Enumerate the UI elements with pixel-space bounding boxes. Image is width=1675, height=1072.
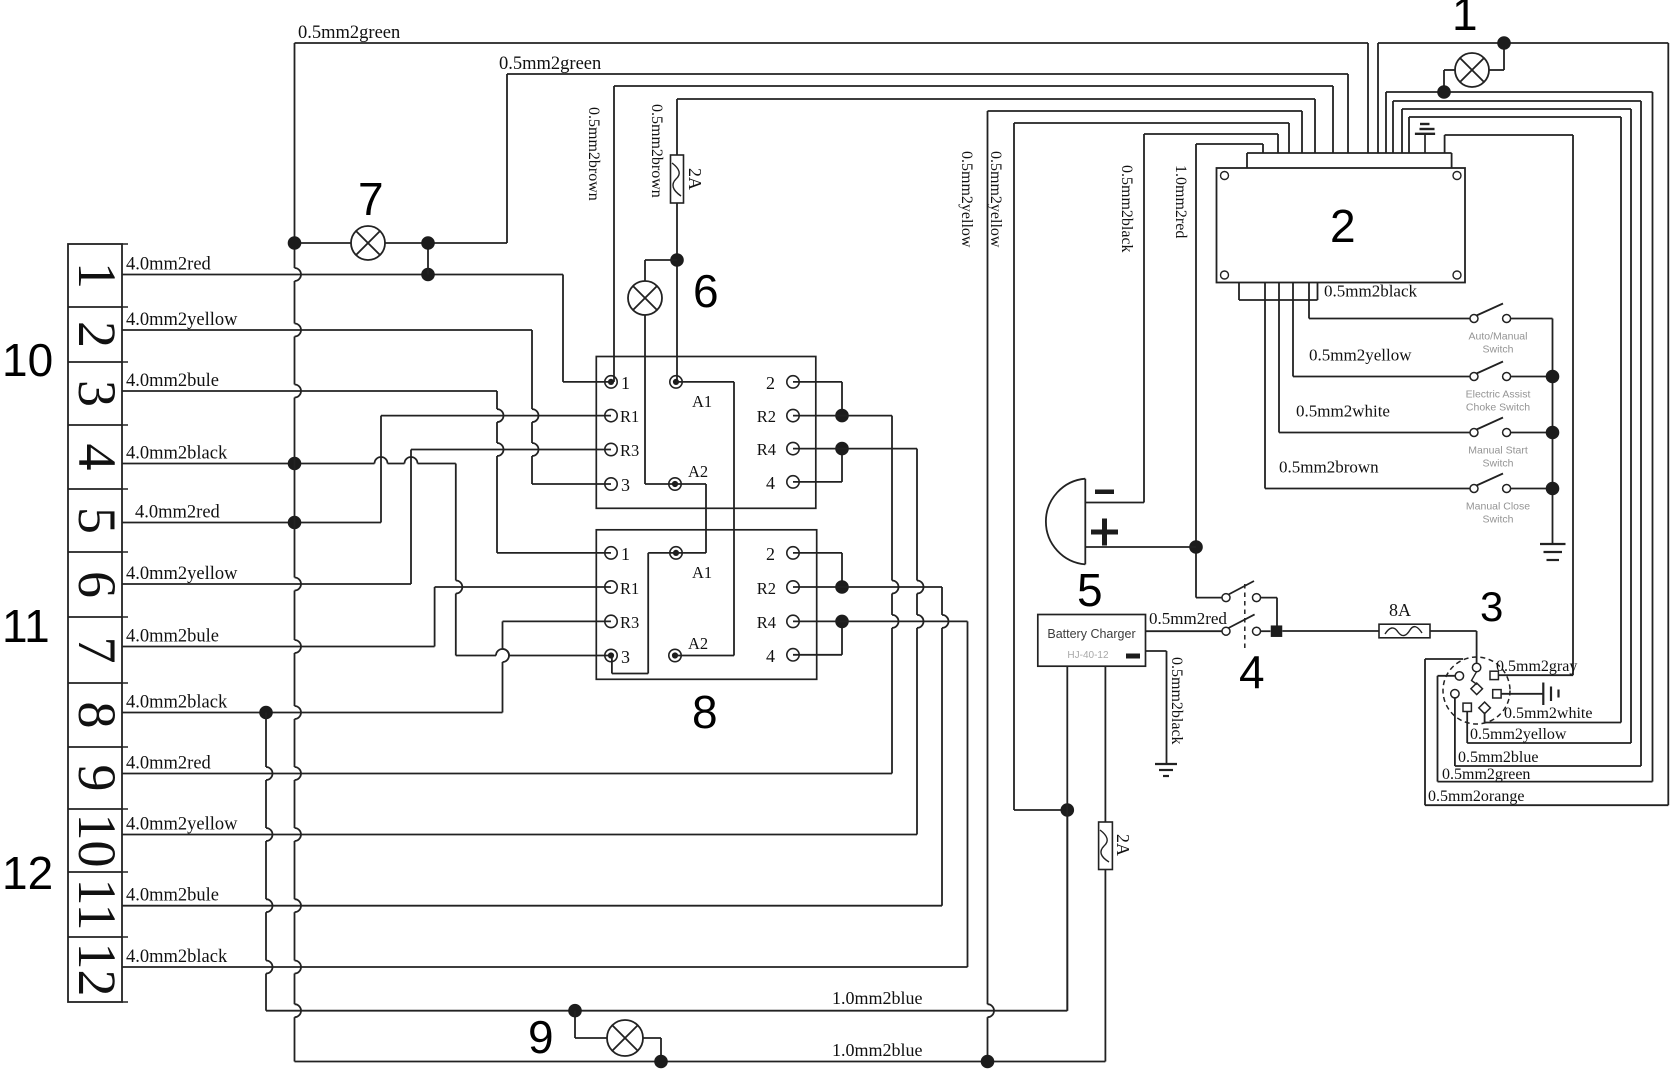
wire terminal2 to relay K1 pin3 — [532, 330, 611, 484]
wire terminal8 to relay K2 R3 — [503, 621, 612, 712]
svg-text:0.5mm2yellow: 0.5mm2yellow — [1470, 726, 1567, 743]
svg-text:4.0mm2black: 4.0mm2black — [126, 947, 228, 967]
wire control box to switch row 2 (0.5mm2yellow) — [1293, 283, 1470, 377]
junction dot wire4 / bus — [288, 457, 302, 471]
svg-text:4: 4 — [1239, 646, 1265, 698]
wire terminal 11 4.0mm2bule — [122, 886, 942, 906]
relay K2 pin R4 — [787, 615, 799, 627]
relay K2 internal link A1 to pin3 — [612, 553, 676, 674]
switch bus vertical — [1552, 319, 1554, 545]
battery charger box — [1038, 615, 1146, 667]
wire terminal 12 4.0mm2black — [122, 947, 968, 967]
connector 3 pin left — [1451, 690, 1459, 698]
wire terminal6 to relay K1 R3 — [411, 450, 611, 585]
svg-text:4.0mm2red: 4.0mm2red — [126, 754, 212, 774]
svg-text:4.0mm2yellow: 4.0mm2yellow — [126, 564, 238, 584]
wire terminal 6 4.0mm2yellow — [122, 564, 411, 584]
switch row 2 (Electric Assist Choke Switch) — [1466, 362, 1553, 414]
bus A vertical (0.5mm2green top to bottom blue wire) — [295, 43, 302, 1062]
svg-text:4.0mm2bule: 4.0mm2bule — [126, 627, 219, 647]
wire charger right pin to fuse 2A — [1104, 666, 1106, 822]
svg-text:0.5mm2yellow: 0.5mm2yellow — [987, 151, 1004, 248]
junction dot lamp9 tap — [568, 1004, 582, 1018]
relay K2 pin A1 — [670, 547, 682, 559]
svg-text:0.5mm2yellow: 0.5mm2yellow — [1309, 346, 1412, 365]
switch row 1 (Auto/Manual Switch) — [1469, 304, 1553, 356]
svg-text:0.5mm2green: 0.5mm2green — [298, 23, 400, 43]
relay K1 pin 3 — [605, 478, 617, 490]
wire terminal 4 4.0mm2black — [122, 444, 456, 464]
wire control box to switch row 4 (0.5mm2brown) — [1265, 283, 1470, 489]
svg-text:0.5mm2blue: 0.5mm2blue — [1458, 749, 1538, 766]
svg-text:4.0mm2bule: 4.0mm2bule — [126, 886, 219, 906]
svg-text:3: 3 — [67, 380, 127, 407]
wire fuse 8A to connector top pin — [1430, 631, 1477, 663]
wire terminal1 to relay K1 pin1 — [563, 275, 611, 382]
connector 3 shell (dashed circle) — [1443, 657, 1510, 724]
junction dot K2 R4 — [835, 615, 849, 629]
junction dot lamp6/fuse — [670, 253, 684, 267]
svg-text:HJ-40-12: HJ-40-12 — [1067, 650, 1109, 661]
wire 0.5mm2yellow (connector to control box) — [1402, 109, 1631, 743]
svg-text:Electric Assist: Electric Assist — [1466, 389, 1531, 401]
relay K1 pin R2 — [787, 409, 799, 421]
svg-text:7: 7 — [67, 637, 127, 664]
wire 0.5mm2brown second (fuse 2A to control box) — [648, 99, 1315, 198]
svg-text:Switch: Switch — [1483, 514, 1514, 526]
wire charger left pin down — [1066, 666, 1068, 810]
svg-text:12: 12 — [67, 943, 127, 997]
connector 3 pin right — [1493, 690, 1501, 698]
relay K2 pin R2 — [787, 581, 799, 593]
wire terminal 3 4.0mm2bule — [122, 371, 497, 391]
wire 0.5mm2green second (lamp7 to control box) — [499, 54, 1348, 243]
fuse F1 2A — [671, 155, 706, 203]
svg-text:A2: A2 — [688, 462, 708, 481]
wire fuse F2 to bottom blue wire — [1104, 870, 1106, 1062]
wire 0.5mm2gray (connector to control box) — [1445, 135, 1578, 675]
svg-text:0.5mm2yellow: 0.5mm2yellow — [958, 151, 975, 248]
fuse F2 2A — [1099, 822, 1133, 870]
svg-text:9: 9 — [528, 1011, 554, 1063]
wire relay K2 pin4 to R4 node — [793, 621, 842, 654]
relay K1 pin labels — [620, 373, 776, 495]
svg-text:0.5mm2black: 0.5mm2black — [1118, 165, 1135, 253]
svg-text:R4: R4 — [757, 613, 776, 632]
svg-text:4.0mm2bule: 4.0mm2bule — [126, 371, 219, 391]
svg-text:6: 6 — [67, 571, 127, 598]
svg-text:Manual Close: Manual Close — [1466, 501, 1530, 513]
wire relay K1 R4 to terminal wire 10 — [793, 449, 924, 835]
wire charger black to ground (0.5mm2black) — [1146, 651, 1186, 764]
svg-text:Battery Charger: Battery Charger — [1047, 627, 1135, 641]
svg-text:0.5mm2gray: 0.5mm2gray — [1496, 658, 1577, 675]
relay K2 box — [596, 530, 816, 680]
svg-text:9: 9 — [67, 765, 127, 792]
svg-text:2: 2 — [1330, 200, 1356, 252]
wire 1.0mm2red (control box to battery plus and switch) — [1172, 144, 1263, 598]
svg-text:2: 2 — [766, 544, 775, 564]
svg-text:R1: R1 — [620, 579, 639, 598]
svg-text:R1: R1 — [620, 407, 639, 426]
control box top stub block — [1247, 153, 1452, 168]
lamp 7 (indicator) — [295, 226, 508, 275]
svg-text:Choke Switch: Choke Switch — [1466, 402, 1530, 414]
svg-text:6: 6 — [693, 265, 719, 317]
ground G4 (switch bus) — [1540, 544, 1566, 560]
junction dot yellow/blue lower — [981, 1055, 995, 1069]
svg-text:R3: R3 — [620, 613, 639, 632]
svg-text:0.5mm2white: 0.5mm2white — [1504, 705, 1592, 722]
control box bottom stub block — [1239, 283, 1318, 301]
junction dot K1 R4 — [835, 442, 849, 456]
svg-text:5: 5 — [67, 507, 127, 534]
svg-text:3: 3 — [1480, 583, 1503, 630]
svg-text:Switch: Switch — [1483, 458, 1514, 470]
svg-text:4.0mm2yellow: 4.0mm2yellow — [126, 310, 238, 330]
svg-text:0.5mm2brown: 0.5mm2brown — [1279, 458, 1379, 477]
svg-text:11: 11 — [2, 600, 50, 652]
svg-text:2: 2 — [766, 373, 775, 393]
svg-text:11: 11 — [67, 879, 127, 931]
svg-text:A2: A2 — [688, 634, 708, 653]
wire 0.5mm2white (connector to control box) — [1409, 117, 1621, 723]
svg-text:4: 4 — [766, 473, 775, 493]
junction dot switch row2 — [1546, 370, 1560, 384]
svg-text:2: 2 — [67, 321, 127, 348]
relay K2 pin 4 — [787, 649, 799, 661]
connector 3 center key pin — [1471, 672, 1483, 695]
wire terminal 10 4.0mm2yellow — [122, 815, 917, 835]
relay K2 pin R3 — [605, 615, 617, 627]
relay K1 pin 1 — [605, 376, 617, 388]
junction dot lamp7 right — [421, 236, 435, 250]
bus B vertical (wire8 to upper blue wire) — [266, 713, 273, 1011]
junction dot wire5 / bus — [288, 516, 302, 530]
svg-text:0.5mm2orange: 0.5mm2orange — [1428, 788, 1524, 805]
svg-text:10: 10 — [2, 334, 53, 386]
svg-text:4: 4 — [766, 646, 775, 666]
relay K2 pin labels — [620, 544, 776, 667]
wire switch4 to fuse 8A — [1282, 630, 1379, 632]
switch row 3 (Manual Start Switch) — [1468, 418, 1552, 470]
wire control box to switch row 3 (0.5mm2white) — [1279, 283, 1470, 433]
svg-text:0.5mm2brown: 0.5mm2brown — [585, 107, 602, 201]
wire terminal3 to relay K2 pin1 — [497, 391, 611, 553]
svg-text:0.5mm2white: 0.5mm2white — [1296, 402, 1390, 421]
wire terminal 5 4.0mm2red — [122, 503, 381, 523]
wire terminal4 to relay K2 pin3 — [456, 464, 611, 656]
svg-text:R2: R2 — [757, 407, 776, 426]
switch 4 upper pole — [1222, 581, 1277, 626]
ground G3 (connector) — [1543, 683, 1558, 706]
svg-text:A1: A1 — [692, 392, 712, 411]
wire control box to switch row 1 (0.5mm2black) — [1309, 282, 1470, 319]
control box 2 — [1217, 168, 1466, 283]
connector 3 pin upper-right — [1490, 671, 1498, 679]
connector 3 pin top — [1472, 663, 1480, 671]
svg-text:3: 3 — [621, 647, 630, 667]
svg-text:8: 8 — [692, 686, 718, 738]
relay K1 pin A2 — [669, 478, 681, 490]
relay K1 pin R3 — [605, 443, 617, 455]
svg-text:0.5mm2black: 0.5mm2black — [1324, 282, 1418, 301]
svg-text:2A: 2A — [685, 168, 705, 190]
terminal strip block (terminals 1-12) — [67, 244, 128, 1002]
wire 0.5mm2brown (relay1 pin1 to control box) — [585, 86, 1333, 382]
junction dot lamp1 lower — [1437, 85, 1451, 99]
wire terminal 2 4.0mm2yellow — [122, 310, 532, 330]
relay K1 box — [596, 357, 816, 509]
svg-text:Manual Start: Manual Start — [1468, 445, 1528, 457]
ground G1 (control box) — [1415, 124, 1435, 153]
lamp 1 (indicator) — [1444, 43, 1504, 92]
wire relay K1 A2 to relay K2 A1 — [675, 484, 706, 553]
wire relay K2 R2 to terminal wire 11 — [793, 587, 949, 906]
svg-text:R4: R4 — [757, 440, 776, 459]
svg-text:0.5mm2green: 0.5mm2green — [499, 54, 601, 74]
svg-text:4.0mm2black: 4.0mm2black — [126, 444, 228, 464]
relay K2 pin R1 — [605, 581, 617, 593]
relay K2 pin 1 — [605, 547, 617, 559]
wire 0.5mm2green (bus A to control box) — [295, 23, 1369, 153]
junction dot wire1 / lamp7 branch — [421, 268, 435, 282]
switch 4 lower pole — [1222, 614, 1271, 635]
wire relay K1 R2 to terminal wire 9 — [793, 416, 899, 774]
wire relay K1 pin4 to R4 node — [793, 449, 842, 482]
junction dot K2 R2 — [835, 580, 849, 594]
relay K1 pin A1 — [670, 376, 682, 388]
svg-text:R2: R2 — [757, 579, 776, 598]
relay K1 pin R4 — [787, 442, 799, 454]
wire battery plus to node — [1085, 546, 1196, 548]
wire terminal 9 4.0mm2red — [122, 754, 892, 774]
wire 0.5mm2orange (connector shell to control box) — [1378, 43, 1668, 805]
wire 0.5mm2blue (connector to control box) — [1393, 101, 1641, 766]
connector 3 pin bottom-right — [1479, 702, 1491, 714]
junction dot switch row3 — [1546, 426, 1560, 440]
junction dot switch4 output — [1271, 625, 1283, 637]
junction dot K1 R2 — [835, 409, 849, 423]
svg-text:10: 10 — [67, 814, 127, 868]
svg-text:4.0mm2yellow: 4.0mm2yellow — [126, 815, 238, 835]
junction dot wire8 / bus2 — [259, 706, 273, 720]
svg-text:0.5mm2green: 0.5mm2green — [1442, 766, 1530, 783]
svg-text:8: 8 — [67, 702, 127, 729]
svg-text:8A: 8A — [1389, 600, 1411, 620]
wire 1.0mm2blue lower — [295, 1040, 1106, 1062]
relay K1 pin 4 — [787, 476, 799, 488]
svg-text:Auto/Manual: Auto/Manual — [1469, 331, 1528, 343]
wire terminal 8 4.0mm2black — [122, 693, 503, 713]
wire terminal7 to relay K2 R1 — [435, 587, 611, 647]
junction dot lamp9 right — [654, 1055, 668, 1069]
svg-text:1.0mm2red: 1.0mm2red — [1172, 165, 1189, 238]
wire 0.5mm2black (control box to battery minus) — [1085, 134, 1278, 503]
svg-text:0.5mm2red: 0.5mm2red — [1149, 609, 1227, 628]
svg-text:0.5mm2brown: 0.5mm2brown — [648, 104, 665, 198]
svg-text:1: 1 — [621, 544, 630, 564]
switch 4 link (dashed) — [1244, 584, 1246, 652]
svg-text:0.5mm2black: 0.5mm2black — [1168, 657, 1185, 745]
wire terminal 7 4.0mm2bule — [122, 627, 435, 647]
svg-text:1.0mm2blue: 1.0mm2blue — [832, 988, 923, 1008]
wire 1.0mm2blue upper — [266, 810, 1067, 1011]
svg-text:Switch: Switch — [1483, 344, 1514, 356]
ground G2 (charger) — [1155, 764, 1177, 776]
connector 3 pin bottom-left — [1463, 703, 1471, 711]
junction dot charger-left/yellow — [1061, 803, 1075, 817]
fuse F3 8A — [1379, 600, 1430, 638]
connector 3 pin upper-left — [1455, 672, 1463, 680]
svg-text:4.0mm2red: 4.0mm2red — [135, 503, 221, 523]
svg-text:A1: A1 — [692, 563, 712, 582]
relay K2 pin 3 — [605, 649, 617, 661]
svg-text:5: 5 — [1077, 564, 1103, 616]
wire terminal 1 4.0mm2red — [122, 255, 563, 275]
lamp 9 (indicator) — [575, 1011, 661, 1062]
relay K1 pin 2 — [787, 376, 799, 388]
svg-text:7: 7 — [358, 173, 384, 225]
svg-text:1.0mm2blue: 1.0mm2blue — [832, 1040, 923, 1060]
svg-text:4: 4 — [67, 444, 127, 471]
junction dot battery plus — [1189, 540, 1203, 554]
junction dot lamp7 left — [288, 236, 302, 250]
wire 0.5mm2green (connector to control box) — [1386, 92, 1653, 783]
wire terminal5 to relay K1 R1 — [381, 416, 611, 523]
svg-text:12: 12 — [2, 847, 53, 899]
junction dot lamp1 upper — [1497, 36, 1511, 50]
junction dot switch row4 — [1546, 482, 1560, 496]
wire 0.5mm2yellow (control box to bottom blue wire) — [958, 111, 1302, 1062]
lamp 6 (indicator) — [628, 260, 677, 484]
relay K2 pin A2 — [669, 649, 681, 661]
wire relay K1 pin2 to R2 node — [793, 382, 842, 416]
svg-text:1: 1 — [1452, 0, 1478, 40]
switch row 4 (Manual Close Switch) — [1466, 474, 1553, 526]
svg-text:1: 1 — [621, 373, 630, 393]
relay K2 pin 2 — [787, 547, 799, 559]
battery 5 — [1046, 479, 1118, 565]
svg-text:R3: R3 — [620, 441, 639, 460]
svg-text:3: 3 — [621, 475, 630, 495]
svg-text:2A: 2A — [1113, 834, 1133, 856]
wire relay K2 pin2 to R2 node — [793, 553, 842, 587]
relay K1 pin R1 — [605, 409, 617, 421]
wire fuse F1 to relay1 A1 — [676, 203, 678, 382]
svg-text:1: 1 — [67, 262, 127, 289]
svg-text:4.0mm2black: 4.0mm2black — [126, 693, 228, 713]
svg-text:4.0mm2red: 4.0mm2red — [126, 255, 212, 275]
wire 0.5mm2yellow second (control box to charger node) — [987, 123, 1289, 810]
wire charger to switch 4 (0.5mm2red) — [1146, 609, 1228, 631]
wire relay K1 A1 to relay K2 A2 — [675, 382, 734, 656]
wire relay K2 R4 to terminal wire 12 — [793, 621, 968, 967]
wire connector right pin to ground — [1501, 693, 1543, 695]
